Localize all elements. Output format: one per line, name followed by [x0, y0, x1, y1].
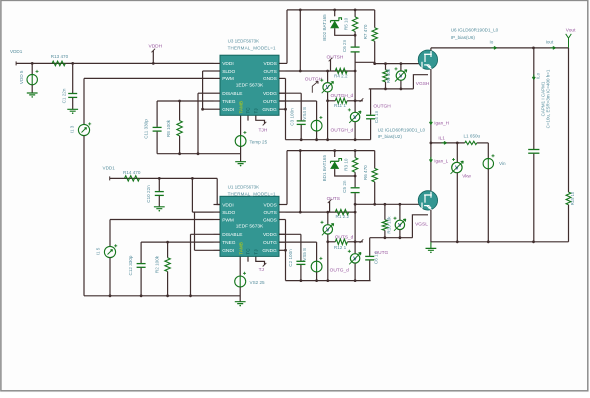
- capacitor CAPM1: [528, 48, 539, 242]
- wire OUTS row (lower): [286, 211, 357, 214]
- svg-text:DISABLE: DISABLE: [222, 91, 242, 97]
- svg-text:ILo: ILo: [535, 72, 540, 79]
- svg-text:U2 IGLD60R190D1_L0: U2 IGLD60R190D1_L0: [378, 127, 426, 132]
- node OUTGH_d (bottom label): [331, 128, 354, 134]
- svg-text:TJ: TJ: [253, 249, 258, 254]
- wire top rail (lower boot): [287, 149, 375, 152]
- resistor R6 470: [363, 151, 377, 205]
- wire GNDS rail (lower mid): [286, 279, 371, 282]
- current source I1 3: [70, 78, 92, 295]
- voltage source V4 8: [302, 101, 323, 140]
- svg-text:R1 2.2: R1 2.2: [336, 214, 350, 219]
- voltmeter source Vkw: [451, 143, 472, 242]
- current probe Iout: [546, 39, 556, 49]
- node VDDH: [149, 44, 163, 64]
- wire GNDS rail (upper mid): [286, 138, 371, 141]
- wire DISABLE (U1): [191, 234, 214, 295]
- svg-text:GNDS: GNDS: [263, 76, 277, 82]
- svg-text:C12 330p: C12 330p: [128, 255, 133, 275]
- svg-text:TAMB: TAMB: [238, 242, 243, 254]
- voltmeter VM3 (VGSL): [394, 204, 406, 237]
- svg-text:Temp 25: Temp 25: [250, 139, 268, 144]
- svg-text:OUTG: OUTG: [374, 250, 388, 256]
- svg-text:SLDO: SLDO: [222, 210, 235, 216]
- label U2: [378, 127, 426, 138]
- wire GNDI rail (upper): [157, 108, 241, 155]
- svg-text:C=10u, ESR=3m IC=400 h=1: C=10u, ESR=3m IC=400 h=1: [545, 69, 550, 128]
- svg-text:C11 330p: C11 330p: [144, 119, 149, 139]
- U3 right pin stubs: [279, 63, 286, 109]
- node OUTG_d label: [330, 268, 350, 274]
- voltmeter VM1 (upper): [320, 71, 333, 140]
- voltmeter VM2 (upper): [348, 71, 361, 140]
- svg-text:C3 100n: C3 100n: [290, 108, 295, 126]
- svg-text:OUTGH: OUTGH: [373, 104, 391, 110]
- svg-text:VS5 8: VS5 8: [302, 248, 307, 261]
- svg-text:TJ: TJ: [253, 108, 258, 113]
- svg-text:OUTG: OUTG: [263, 99, 277, 105]
- current probe Igan_H: [430, 120, 450, 126]
- svg-text:R8 100k: R8 100k: [166, 119, 171, 137]
- svg-text:VDD 5: VDD 5: [19, 70, 24, 84]
- svg-text:GNDG: GNDG: [262, 248, 277, 254]
- wire ground bus (right): [431, 240, 569, 243]
- wire TNEG row (U3): [157, 100, 213, 103]
- svg-text:OUTGH_d: OUTGH_d: [331, 128, 354, 134]
- transistor U2 IGBT (lower): [418, 191, 437, 211]
- voltage source V5 8: [302, 242, 323, 281]
- node VDD1 (upper): [10, 49, 23, 54]
- wire SLDO (U3): [203, 71, 214, 109]
- resistor R2 100k: [155, 242, 171, 296]
- ground (below V2 25): [235, 302, 246, 307]
- svg-text:OUTGH_d: OUTGH_d: [331, 93, 354, 99]
- svg-text:TNEG: TNEG: [222, 99, 236, 105]
- wire GNDI bus (lower): [84, 294, 240, 297]
- svg-text:C4 1n: C4 1n: [374, 110, 379, 123]
- svg-text:Iout: Iout: [546, 39, 554, 44]
- node VGSL: [415, 221, 428, 227]
- svg-text:U6 IGLD60R190D1_L0: U6 IGLD60R190D1_L0: [451, 28, 499, 33]
- voltmeter VM3 (VGSH): [395, 64, 407, 89]
- capacitor C6 1n (lower): [365, 238, 378, 281]
- op-amp U3 1EDF5673K gate driver: [220, 38, 279, 115]
- svg-text:TNEG: TNEG: [222, 240, 236, 246]
- node OUTS_d label: [335, 234, 354, 240]
- resistor R14 470: [123, 170, 141, 181]
- wire SLDO (U1): [192, 178, 213, 250]
- svg-text:I1 3: I1 3: [70, 125, 75, 133]
- resistor R9 10k: [383, 64, 391, 89]
- node VGSH: [416, 81, 430, 87]
- current probe Igan_L: [430, 157, 456, 163]
- svg-text:VGSL: VGSL: [415, 221, 428, 227]
- svg-text:IP_bias(U6): IP_bias(U6): [451, 35, 476, 40]
- svg-text:PWM: PWM: [222, 217, 234, 223]
- node Vout: [566, 27, 576, 48]
- node VDD1 (lower): [103, 166, 116, 171]
- wire emitter chain (phase node): [430, 69, 433, 191]
- svg-text:OUTS: OUTS: [263, 210, 276, 216]
- op-amp U1 1EDF5673K gate driver: [220, 184, 279, 256]
- wire gate row (upper): [373, 62, 421, 65]
- voltmeter VM1 (lower): [321, 212, 334, 281]
- svg-text:VS2 25: VS2 25: [250, 280, 266, 285]
- wire OUTGH_d row / resistor R11 1: [326, 98, 363, 108]
- capacitor C3 100n: [290, 93, 306, 140]
- svg-text:R3 10: R3 10: [343, 158, 348, 171]
- wire GNDS/GNDG riser (lower): [284, 220, 287, 281]
- svg-text:Igan_H: Igan_H: [434, 121, 449, 126]
- inductor L1 650u: [464, 134, 489, 145]
- diode BD2 BAT165: [322, 10, 355, 41]
- svg-text:L1 650u: L1 650u: [464, 134, 481, 139]
- wire OUTG row: [279, 100, 317, 102]
- svg-text:Vout: Vout: [566, 27, 576, 33]
- svg-text:BD1 BAT165: BD1 BAT165: [322, 155, 327, 182]
- wire load link row: [431, 142, 465, 145]
- svg-text:C10 22n: C10 22n: [146, 185, 151, 203]
- svg-text:R15 10: R15 10: [570, 191, 575, 205]
- wire gate row (lower): [373, 203, 421, 206]
- node OUTGH_d label: [331, 93, 354, 99]
- ground (below C10): [154, 207, 165, 212]
- resistor R13 470: [51, 54, 69, 65]
- wire collector rail (Vout): [431, 47, 569, 51]
- pin TJ / node TJ: [256, 256, 266, 273]
- U1 left pin stubs: [214, 205, 221, 251]
- voltage source Temp 25: [235, 115, 267, 161]
- svg-text:TJH: TJH: [259, 127, 268, 133]
- svg-text:GNDG: GNDG: [262, 107, 277, 113]
- svg-text:Igan_L: Igan_L: [434, 158, 448, 163]
- svg-text:C2 100n: C2 100n: [288, 249, 293, 267]
- pin TJ / node TJH: [256, 115, 268, 133]
- svg-text:R9 10k: R9 10k: [386, 68, 391, 83]
- wire PWM row (U3): [84, 77, 214, 79]
- svg-text:OUTG: OUTG: [263, 240, 277, 246]
- svg-text:OUTS: OUTS: [327, 196, 340, 202]
- svg-text:U1 1EDF5673K: U1 1EDF5673K: [228, 184, 260, 189]
- svg-text:TC: TC: [246, 248, 251, 255]
- svg-text:Vkw: Vkw: [462, 174, 471, 179]
- svg-text:Vin: Vin: [499, 161, 506, 166]
- capacitor C12 330p: [128, 242, 146, 296]
- svg-text:TJ: TJ: [259, 267, 265, 273]
- wire top rail (upper boot): [287, 9, 375, 12]
- wire OUTS riser (lower): [299, 151, 301, 213]
- ground (below VDD5): [27, 93, 38, 98]
- pin TC stub (U1): [247, 256, 249, 261]
- svg-text:THERMAL_MODEL=1: THERMAL_MODEL=1: [228, 45, 276, 50]
- svg-text:R5 10: R5 10: [343, 17, 348, 30]
- U3 left pin stubs: [214, 63, 221, 109]
- svg-text:R14 470: R14 470: [123, 170, 141, 175]
- svg-text:C1 22n: C1 22n: [62, 88, 67, 103]
- wire VDDG row: [279, 92, 301, 94]
- wire GNDI row (U3): [203, 108, 214, 110]
- svg-text:1EDF 5673K: 1EDF 5673K: [236, 82, 264, 88]
- capacitor C1 22n: [62, 63, 78, 109]
- svg-text:BD2 BAT165: BD2 BAT165: [322, 14, 327, 41]
- resistor R4 2.2: [334, 68, 348, 78]
- resistor R10 10k: [382, 204, 391, 237]
- resistor R7 470: [363, 10, 377, 64]
- wire DISABLE (U3): [198, 93, 214, 154]
- svg-text:GNDI: GNDI: [222, 248, 234, 254]
- capacitor C10 22n: [146, 178, 164, 206]
- wire TNEG row (U1): [141, 241, 213, 244]
- wire VDD1 rail to U3 VDDI: [16, 61, 213, 65]
- resistor R3 10: [343, 151, 358, 188]
- svg-text:OUTG_d: OUTG_d: [330, 268, 350, 274]
- svg-text:I1 5: I1 5: [96, 247, 101, 255]
- svg-text:VDDS: VDDS: [263, 202, 276, 208]
- svg-text:GNDS: GNDS: [263, 217, 277, 223]
- wire OUTS row: [286, 70, 357, 73]
- svg-text:R13 470: R13 470: [51, 54, 69, 59]
- svg-text:OUTGH: OUTGH: [305, 76, 323, 82]
- svg-text:OUTS: OUTS: [263, 69, 276, 75]
- node OUTS: [327, 196, 340, 212]
- svg-text:VDDH: VDDH: [149, 44, 163, 50]
- svg-text:IL1: IL1: [438, 136, 445, 141]
- wire VDDG row (lower): [279, 233, 301, 235]
- svg-text:VDDG: VDDG: [263, 91, 277, 97]
- svg-text:VDDS: VDDS: [263, 61, 276, 67]
- svg-text:1EDF 5673K: 1EDF 5673K: [236, 223, 264, 229]
- capacitor C4 1n: [366, 89, 379, 140]
- diode BD1 BAT165: [322, 151, 355, 182]
- resistor R8 100k: [166, 101, 182, 154]
- svg-text:VGSH: VGSH: [416, 81, 430, 87]
- svg-text:C6 2n: C6 2n: [342, 39, 347, 52]
- wire OUTG row (lower): [279, 241, 317, 243]
- svg-text:VDD1: VDD1: [103, 166, 116, 171]
- wire emitter to ground bus: [430, 210, 432, 242]
- svg-text:VS4 8: VS4 8: [302, 107, 307, 120]
- resistor R15 load: [566, 48, 575, 242]
- capacitor C5 2n: [342, 180, 360, 212]
- current probe IL1: [438, 136, 446, 145]
- label U6: [451, 28, 499, 40]
- svg-text:SLDO: SLDO: [222, 69, 235, 75]
- node OUTSH: [327, 54, 344, 71]
- svg-text:PWM: PWM: [222, 76, 234, 82]
- voltage source V2 25: [235, 256, 265, 301]
- resistor R1 2.2: [335, 209, 349, 219]
- svg-text:VDDI: VDDI: [222, 61, 233, 67]
- wire VDDS riser (lower): [286, 151, 288, 205]
- node OUTGH (left): [305, 76, 323, 92]
- svg-text:GNDI: GNDI: [222, 107, 234, 113]
- transistor U6 IGBT (upper): [418, 50, 437, 70]
- svg-text:VDDG: VDDG: [263, 232, 277, 238]
- svg-text:R12 1: R12 1: [334, 245, 347, 250]
- label CAPM1: [540, 69, 550, 128]
- resistor R5 10: [343, 10, 358, 47]
- wire VDD1 rail to U1 VDDI: [110, 176, 220, 204]
- svg-text:VDDI: VDDI: [222, 202, 233, 208]
- svg-text:U3 1EDF5673K: U3 1EDF5673K: [228, 38, 260, 43]
- voltage source Vin: [483, 143, 506, 242]
- svg-text:R10 10k: R10 10k: [386, 216, 391, 234]
- svg-text:R2 100k: R2 100k: [155, 255, 160, 273]
- current source I1 5: [96, 220, 118, 296]
- capacitor C2 820n: [288, 234, 305, 280]
- wire VGS loop bottom (lower): [370, 215, 428, 239]
- svg-text:R11 1: R11 1: [334, 103, 346, 108]
- current probe Io: [490, 39, 497, 49]
- voltmeter VM2 (lower): [348, 212, 361, 281]
- wire GNDS/GNDG riser: [284, 78, 287, 139]
- wire C6-R7 link: [355, 61, 375, 63]
- svg-text:THERMAL_MODEL=1: THERMAL_MODEL=1: [228, 191, 276, 196]
- svg-text:R4 2.2: R4 2.2: [334, 73, 348, 78]
- ground (below Temp 25): [235, 162, 246, 167]
- wire VDDS riser: [286, 10, 288, 64]
- wire OUTS_d row / resistor R12 1: [326, 239, 363, 250]
- ground (below C1): [67, 109, 78, 114]
- pin TC stub (U3): [247, 115, 249, 120]
- svg-text:VDD1: VDD1: [10, 49, 23, 54]
- ground (bus): [426, 242, 437, 253]
- svg-text:R6 470: R6 470: [363, 165, 368, 180]
- capacitor C11 330p: [144, 101, 162, 154]
- svg-text:IP_bias(U2): IP_bias(U2): [378, 134, 403, 139]
- svg-text:OUTSH: OUTSH: [327, 54, 344, 60]
- wire PWM row (U1): [110, 219, 214, 221]
- svg-text:R7 470: R7 470: [363, 24, 368, 39]
- wire OUTS riser: [299, 10, 301, 71]
- U1 right pin stubs: [279, 205, 286, 251]
- svg-text:DISABLE: DISABLE: [222, 232, 242, 238]
- svg-text:TAMB: TAMB: [238, 101, 243, 113]
- voltage source VDD 5: [19, 63, 39, 92]
- current probe ILo: [532, 72, 540, 79]
- svg-text:TC: TC: [246, 107, 251, 114]
- wire C5-R6 link: [354, 203, 375, 206]
- wire GNDI row (U1): [195, 249, 214, 251]
- svg-text:Io: Io: [490, 39, 494, 44]
- wire VGS loop bottom (upper): [369, 75, 428, 91]
- capacitor C6 2n: [342, 39, 360, 71]
- svg-text:C5 2n: C5 2n: [342, 180, 347, 193]
- node OUTG (right): [374, 250, 388, 256]
- node OUTGH (right): [373, 104, 391, 110]
